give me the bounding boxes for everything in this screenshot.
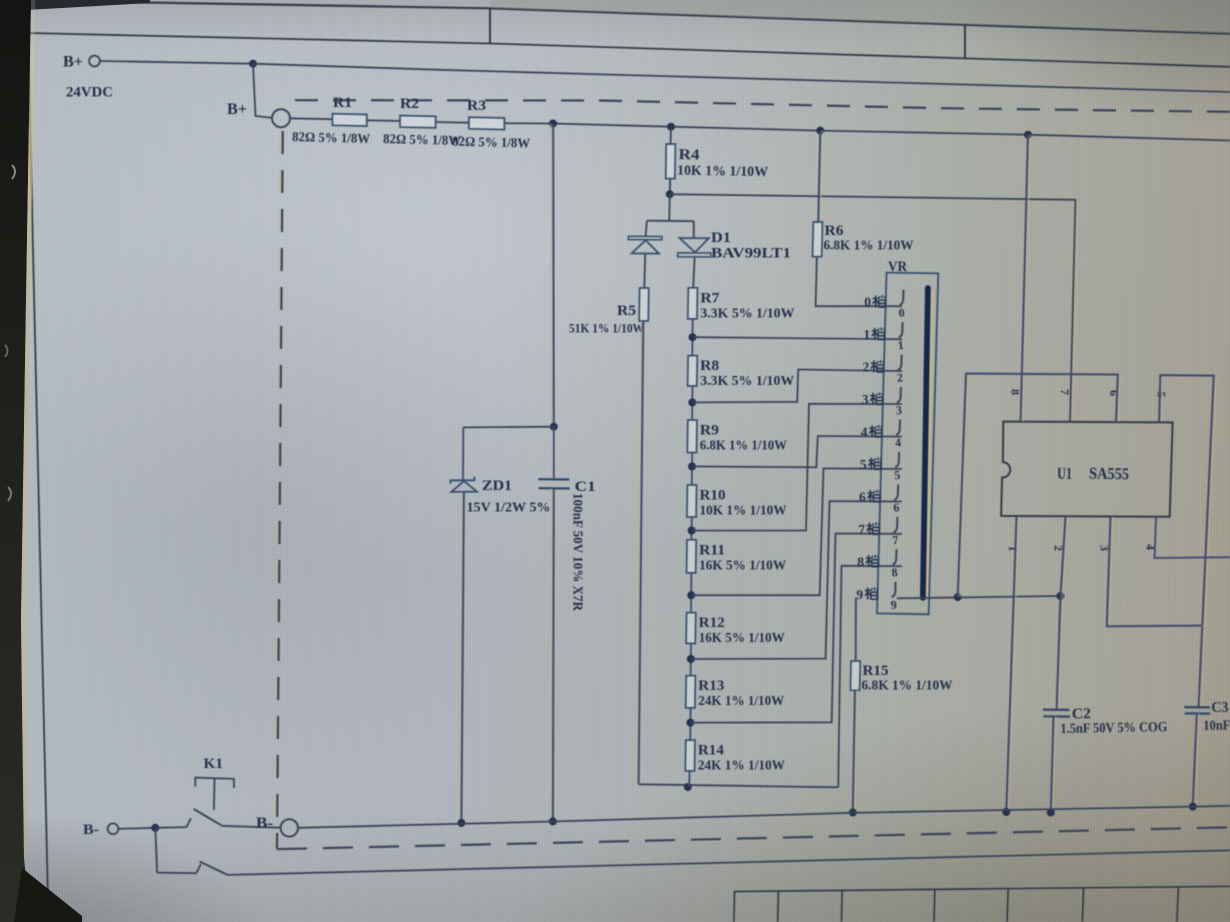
resistor R10 xyxy=(687,485,697,517)
junction bus to U1 pin8 xyxy=(1024,131,1032,139)
op-amp U1 SA555 body xyxy=(1001,422,1173,517)
pin VR 2 hook xyxy=(898,355,902,370)
wire R7 to next xyxy=(691,319,693,356)
junction R9-R10 node xyxy=(688,462,696,470)
top-left dark edge strip xyxy=(26,0,150,10)
wire R4 node to U1 pin7 xyxy=(672,194,1078,421)
wire bus down to C1 branch xyxy=(550,124,553,427)
junction C1 on B- bus xyxy=(549,817,557,825)
switch K1 upper contact hook xyxy=(187,818,191,827)
wire VR pin9 to C2 branch xyxy=(897,596,1061,598)
wire C1 branch to C1 xyxy=(553,427,555,479)
resistor R14 xyxy=(685,740,695,771)
resistor R7 xyxy=(688,288,698,319)
wire R12 to next xyxy=(690,644,692,676)
junction bus to C1 branch xyxy=(549,120,557,128)
wire R10 to next xyxy=(690,517,692,540)
switch K1 lower contact hook xyxy=(197,864,201,873)
terminal B+ switched circle xyxy=(272,109,290,127)
wire B+ drop to switch-side terminal xyxy=(253,64,272,118)
wire B- down to K1 lower contact xyxy=(155,828,157,873)
junction pin9 net U1 pin6 drop xyxy=(954,593,962,601)
switch K1 actuator xyxy=(195,778,234,788)
wire C3 to B- bus xyxy=(1195,714,1199,807)
connector VR body xyxy=(877,273,938,615)
wire D1 left to R5 xyxy=(643,254,646,288)
title block top line xyxy=(734,886,1230,891)
diode ZD1 zener bar xyxy=(450,477,474,484)
capacitor C1 xyxy=(538,478,569,480)
terminal B+ circle xyxy=(89,56,100,67)
wire K1 common to B- switched terminal xyxy=(221,826,280,828)
wire tap 8 rail to VR pin8 xyxy=(838,566,902,788)
switch K1 upper arm xyxy=(194,809,222,825)
terminal B- switched circle xyxy=(281,819,298,836)
wire bus to U1 pin8 xyxy=(1023,135,1030,422)
pin VR 7 hook xyxy=(893,517,897,532)
pin VR 1 hook xyxy=(899,322,903,337)
junction pin9 net U1 pin2 drop xyxy=(1057,592,1065,600)
wire ladder bottom rail xyxy=(639,784,839,787)
wire C1 to B- bus xyxy=(550,488,553,821)
wire R8 to next xyxy=(691,386,693,420)
wire D1 right to R7 xyxy=(693,257,694,288)
wire tap 4 R9-R10 to VR pin4 xyxy=(692,436,902,467)
page border column tick x965 xyxy=(964,25,966,59)
wire switched bus to right edge xyxy=(504,123,1230,140)
diode D1 left half cathode bar xyxy=(628,236,662,240)
page border column tick x490 xyxy=(489,8,491,44)
dashed domain bottom line xyxy=(277,827,1230,849)
bezel screen-edge highlight xyxy=(21,0,36,858)
terminal B- circle xyxy=(108,823,119,834)
wire tap 6 R12-R13 to VR pin6 xyxy=(691,501,902,659)
junction C1 branch xyxy=(550,423,558,431)
top-right grey band above page border xyxy=(490,0,1230,34)
diode D1 right half triangle xyxy=(680,238,709,252)
switch K1 lower arm xyxy=(200,862,228,875)
wire K1 lower stub xyxy=(157,872,196,875)
bezel bottom corner wedge xyxy=(14,868,82,922)
junction R7-R8 node xyxy=(689,333,697,341)
wire R5 to ladder bottom rail xyxy=(636,321,641,784)
connector VR common bar xyxy=(923,288,928,598)
wire R13 to next xyxy=(689,708,691,740)
pin VR 4 hook xyxy=(896,420,900,435)
wire U1 pin6 bracket xyxy=(960,374,1120,598)
wire pin9 net to C2 xyxy=(1059,596,1063,710)
junction R4 node xyxy=(666,190,674,198)
junction R10-R11 node xyxy=(688,527,696,535)
wire R4 node to D1 xyxy=(668,194,671,221)
junction B- split xyxy=(151,824,159,832)
diode D1 right half cathode bar xyxy=(678,253,711,257)
wire R14 to bottom rail xyxy=(688,771,690,787)
wire K1 lower throw to right edge xyxy=(228,850,1230,875)
wire B- bus xyxy=(298,806,1230,828)
page border inner top line xyxy=(28,33,1230,67)
junction R13-R14 node xyxy=(686,719,694,727)
capacitor C2 xyxy=(1043,708,1070,711)
pin VR 9 hook xyxy=(892,582,896,597)
junction B+ rail xyxy=(249,60,257,68)
wire ZD1 to B- bus xyxy=(459,492,462,823)
wire bracket to ZD1 xyxy=(463,426,554,429)
pin VR 6 hook xyxy=(894,484,898,499)
resistor R11 xyxy=(687,540,697,573)
wire R11 to next xyxy=(690,573,692,613)
resistor R8 xyxy=(688,356,698,386)
junction R15 on B- bus xyxy=(849,809,857,817)
bezel body xyxy=(0,0,82,922)
junction bus to R6 xyxy=(816,127,824,135)
bezel reflection marks xyxy=(12,165,15,179)
resistor R6 xyxy=(813,222,823,257)
pin VR 8 hook xyxy=(893,549,897,564)
dashed domain top line xyxy=(295,100,1230,112)
junction ZD1 on B- bus xyxy=(457,819,465,827)
wire tap 3 R10-R11 to VR pin3 xyxy=(692,404,902,531)
wire R2 to R3 xyxy=(436,121,469,124)
junction U1 pin1 on B- bus xyxy=(1002,808,1010,816)
wire tap 1 R7-R8 to VR pin1 xyxy=(693,337,903,339)
wire U1 pin2 down to pin9 net xyxy=(1063,517,1068,596)
pin VR 3 hook xyxy=(897,387,901,402)
wire R1 to R2 xyxy=(367,119,400,122)
wire pin9 net to R15 xyxy=(855,598,857,661)
wire U1 pin4 to right edge xyxy=(1155,517,1230,558)
wire D1 top bracket xyxy=(647,220,694,223)
wire U1 pin1 to B- bus xyxy=(1009,517,1019,812)
wire B- to K1 upper contact xyxy=(155,826,186,829)
junction C2 on B- bus xyxy=(1047,809,1055,817)
title block column lines xyxy=(734,887,1179,922)
junction bus to R4 xyxy=(667,123,675,131)
resistor R12 xyxy=(686,613,696,644)
pin VR 0 hook xyxy=(900,290,904,305)
wire U1 pin3 output xyxy=(1109,517,1205,627)
wire U1 pin5 bracket xyxy=(1161,375,1216,707)
resistor R4 xyxy=(666,144,676,179)
resistor R15 xyxy=(850,661,860,690)
wire D1 left branch upper xyxy=(646,221,647,237)
junction C3 on B- bus xyxy=(1189,803,1197,811)
wire bus to R6 xyxy=(820,131,822,222)
resistor R5 xyxy=(639,288,649,321)
resistor R1 xyxy=(332,114,366,126)
pin VR 5 hook xyxy=(895,452,899,467)
wire B+ rail to right edge xyxy=(253,64,1230,92)
diode D1 left half triangle xyxy=(632,240,659,253)
wire R9 to next xyxy=(691,453,693,486)
wire tap 7 R13-R14 to VR pin7 xyxy=(690,534,902,723)
wire bus to R4 xyxy=(670,127,673,144)
resistor R9 xyxy=(687,420,697,453)
dashed domain left vertical xyxy=(275,131,281,849)
page border left vertical xyxy=(28,33,49,922)
resistor R13 xyxy=(686,676,696,708)
resistor R2 xyxy=(400,116,436,128)
wire tap 2 R8-R9 to VR pin2 xyxy=(692,370,902,403)
wire R15 to B- bus xyxy=(855,690,857,812)
resistor R3 xyxy=(469,117,505,129)
capacitor C3 xyxy=(1184,706,1210,709)
junction R8-R9 node xyxy=(688,398,696,406)
wire tap 5 R11-R12 to VR pin5 xyxy=(691,468,902,595)
wire R6 to VR pin0 xyxy=(816,257,902,307)
wire B- to junction xyxy=(119,828,156,829)
wire D1 right branch upper xyxy=(693,221,695,238)
junction R11-R12 node xyxy=(687,591,695,599)
wire C2 to B- bus xyxy=(1053,717,1056,813)
wire B+ to junction xyxy=(100,61,253,64)
junction R12-R13 node xyxy=(687,655,695,663)
wire R4 to junction xyxy=(669,179,671,195)
page border outer top line xyxy=(30,1,1230,34)
connector VR common bar highlight xyxy=(926,290,931,598)
diode ZD1 triangle xyxy=(451,481,477,492)
junction R14 bottom on rail xyxy=(684,783,692,791)
wire circle to R1 xyxy=(290,117,332,120)
